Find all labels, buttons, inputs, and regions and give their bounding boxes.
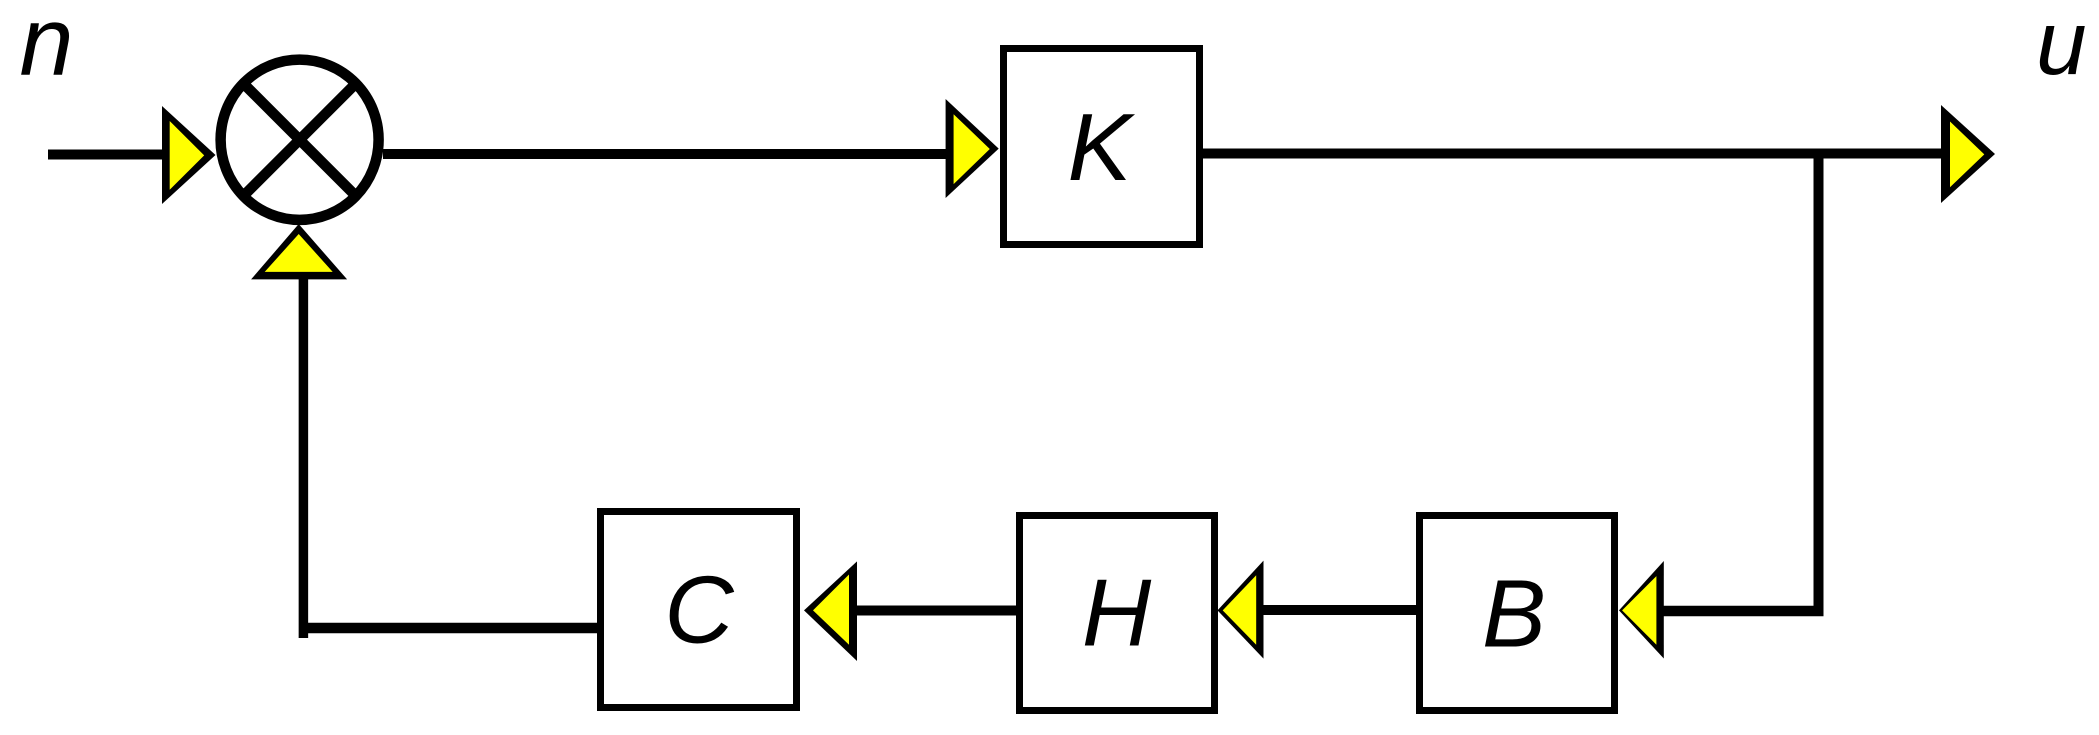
arrowhead into summing junction xyxy=(162,106,216,204)
svg-text:H: H xyxy=(1082,560,1152,667)
wire branch corner to B xyxy=(1660,606,1824,617)
block H xyxy=(1020,516,1215,711)
arrowhead output u xyxy=(1941,105,1995,203)
svg-text:K: K xyxy=(1067,94,1135,201)
arrowhead up into summing junction xyxy=(251,224,347,279)
svg-text:n: n xyxy=(20,0,74,96)
wire branch down from output line xyxy=(1814,149,1824,616)
wire input n to summing junction xyxy=(48,150,166,160)
wire C to left corner xyxy=(299,623,597,634)
wire C to H xyxy=(857,606,1016,616)
wire K to output u xyxy=(1203,149,1944,159)
wire H to B xyxy=(1263,605,1416,615)
arrowhead into B xyxy=(1619,561,1664,659)
arrowhead into C xyxy=(804,561,857,661)
arrowhead into H xyxy=(1218,561,1264,659)
svg-text:u: u xyxy=(2036,0,2087,94)
arrowhead into K xyxy=(946,99,999,198)
block C xyxy=(601,512,797,708)
summing junction (circle with X) xyxy=(221,60,379,220)
svg-text:C: C xyxy=(664,557,734,664)
svg-text:B: B xyxy=(1482,561,1546,668)
wire summing junction to K xyxy=(383,149,949,159)
wire up to summing junction xyxy=(299,273,309,638)
block B xyxy=(1420,516,1615,711)
block K xyxy=(1004,49,1200,245)
